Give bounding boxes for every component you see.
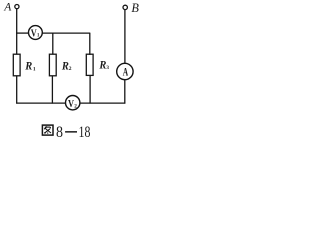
wire bottom rail right segment (80, 102, 125, 104)
wire top rail left segment (16, 32, 28, 34)
wire drop from rail to R2 (52, 33, 54, 55)
wire from ammeter down to bottom rail (124, 80, 126, 104)
svg-text:2: 2 (69, 66, 72, 72)
wire top rail right segment (42, 32, 90, 34)
svg-text:1: 1 (33, 67, 36, 73)
svg-text:8: 8 (56, 124, 63, 141)
svg-text:V: V (68, 98, 74, 110)
caption character tu (figure) drawn as strokes (42, 125, 53, 135)
node B terminal (123, 5, 127, 9)
svg-text:3: 3 (106, 65, 109, 71)
resistor R3 (86, 54, 93, 75)
svg-text:2: 2 (74, 103, 77, 109)
wire bottom rail left segment (16, 102, 65, 104)
wire below R2 (51, 76, 53, 104)
voltmeter V2 (66, 96, 80, 110)
svg-text:1: 1 (37, 33, 40, 39)
node A terminal (15, 5, 19, 9)
voltmeter V1 (29, 26, 43, 40)
svg-text:A: A (3, 1, 12, 14)
wire below R3 (89, 75, 91, 103)
svg-text:18: 18 (79, 124, 91, 141)
ammeter A (117, 63, 133, 79)
svg-text:B: B (131, 1, 139, 15)
svg-text:A: A (123, 66, 129, 78)
wire below R1 (16, 76, 18, 104)
caption dash (65, 131, 77, 133)
resistor R2 (49, 54, 56, 76)
wire from A down left side (16, 9, 18, 55)
wire from B down to ammeter (124, 10, 126, 64)
resistor R1 (13, 54, 20, 76)
svg-text:R: R (24, 60, 32, 72)
wire corner drop from rail to R3 (89, 33, 91, 55)
